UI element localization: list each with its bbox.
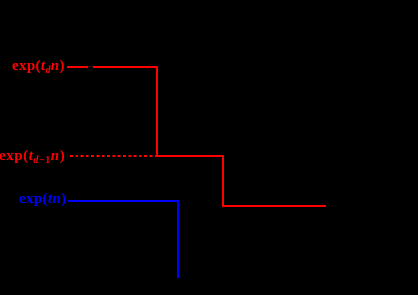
wire blue vertical	[177, 200, 179, 279]
wire red level-1 horizontal right part	[93, 66, 158, 68]
label exp(t_d n)	[12, 59, 65, 74]
label exp(tn)	[19, 192, 66, 207]
wire red level-2 horizontal	[155, 155, 224, 157]
wire red level-1 horizontal left part	[67, 66, 88, 68]
wire red dotted level-2 extension	[70, 155, 153, 157]
label exp(t_{d-1} n)	[0, 149, 65, 164]
wire red level-3 horizontal	[222, 205, 326, 207]
wire red vertical drop 1	[156, 66, 158, 158]
wire red vertical drop 2	[222, 155, 224, 207]
wire red level-1 dim joint	[88, 66, 94, 67]
wire blue horizontal	[68, 200, 179, 202]
